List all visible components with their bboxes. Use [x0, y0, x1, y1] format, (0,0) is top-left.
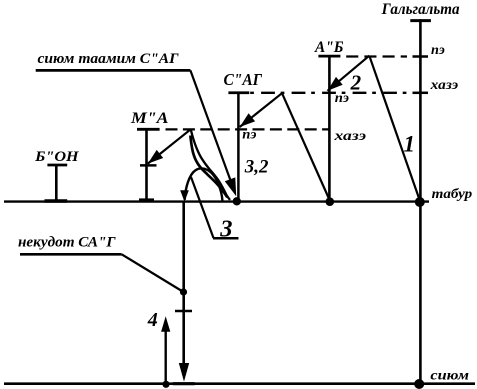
- tick pe of MA: [140, 164, 157, 167]
- svg-text:М"А: М"А: [130, 110, 169, 127]
- dot on nekudot line: [180, 288, 187, 295]
- svg-text:3,2: 3,2: [244, 157, 269, 178]
- svg-text:А"Б: А"Б: [314, 39, 343, 56]
- foot of nekudot line at siyum: [173, 382, 195, 385]
- leader arrowhead at SAG tabur dot: [225, 177, 236, 196]
- dashed level chaze-Galgalta: [250, 92, 407, 94]
- arrow shaft to pe-MA: [148, 129, 191, 163]
- nekudot SAG vertical line: [182, 201, 185, 366]
- ribbon curve lower stroke: [190, 136, 227, 198]
- svg-text:сиюм таамим С"АГ: сиюм таамим С"АГ: [38, 51, 179, 67]
- partzuf Galgalta top cap: [410, 19, 431, 22]
- dot siyum of Galgalta: [414, 379, 424, 389]
- svg-text:некудот СА"Г: некудот СА"Г: [18, 235, 116, 251]
- leader nekudot to dot: [122, 254, 184, 292]
- dashed level pe-Galgalta: [346, 55, 407, 57]
- partzuf AB top cap: [318, 55, 340, 58]
- svg-text:пэ: пэ: [335, 91, 349, 106]
- partzuf BON vertical line: [55, 165, 58, 202]
- dot at base of arrow 4: [162, 381, 169, 388]
- partzuf AB vertical line: [328, 56, 331, 202]
- dome arc pointer 3: [185, 168, 223, 200]
- svg-text:хазэ: хазэ: [333, 129, 366, 144]
- svg-text:Б"ОН: Б"ОН: [34, 149, 80, 165]
- arrow head to pe-SAG: [240, 113, 255, 127]
- svg-text:табур: табур: [432, 186, 473, 201]
- leader siyum taamim to SAG tabur dot: [190, 70, 234, 190]
- underline of siyum taamim label: [36, 69, 191, 72]
- dashed level pe-SAG: [166, 128, 329, 130]
- leader 3 tail: [191, 177, 214, 238]
- svg-text:4: 4: [147, 309, 158, 331]
- underline of nekudot label: [20, 253, 122, 256]
- svg-text:2: 2: [350, 71, 362, 95]
- partzuf MA top cap: [137, 128, 160, 131]
- nekudot down arrowhead at siyum: [179, 363, 189, 382]
- dot tabur of AB: [326, 197, 335, 206]
- svg-text:С"АГ: С"АГ: [224, 70, 263, 89]
- dot tabur of Galgalta: [415, 197, 425, 207]
- tick on nekudot line: [175, 310, 192, 313]
- svg-text:1: 1: [404, 132, 416, 157]
- svg-text:сиюм: сиюм: [430, 369, 469, 384]
- partzuf Galgalta vertical line: [419, 19, 422, 384]
- svg-text:пэ: пэ: [242, 128, 256, 143]
- arrow 4 up arrowhead: [161, 316, 170, 332]
- partzuf SAG vertical line: [237, 93, 240, 202]
- arrow shaft to pe-SAG: [240, 93, 282, 127]
- svg-text:Гальгальта: Гальгальта: [381, 1, 460, 18]
- partzuf BON top cap: [47, 164, 67, 167]
- arrow 2 shaft to pe-AB: [328, 56, 370, 91]
- siyum line: [4, 382, 475, 385]
- dome down arrowhead at tabur: [180, 190, 189, 202]
- partzuf MA vertical line: [145, 129, 148, 201]
- line SAG descent to tabur-AB: [282, 93, 330, 200]
- arrow 2 head: [328, 77, 343, 91]
- svg-text:хазэ: хазэ: [430, 78, 459, 93]
- tick pe of Galgalta: [413, 55, 429, 58]
- partzuf SAG top cap: [228, 91, 249, 94]
- foot of MA at tabur: [139, 198, 154, 201]
- dot tabur of SAG: [233, 197, 241, 205]
- arrow head to pe-MA: [148, 150, 163, 164]
- underline of 3: [213, 237, 239, 240]
- svg-text:3: 3: [219, 215, 232, 242]
- foot of BON at tabur: [45, 199, 68, 202]
- ribbon curve upper stroke: [191, 129, 230, 200]
- tick chaze of Galgalta: [413, 92, 429, 95]
- svg-text:пэ: пэ: [431, 43, 445, 58]
- line 1 descent Galgalta: [369, 56, 420, 201]
- tabur line: [4, 200, 429, 202]
- arrow 4 shaft up: [164, 330, 166, 384]
